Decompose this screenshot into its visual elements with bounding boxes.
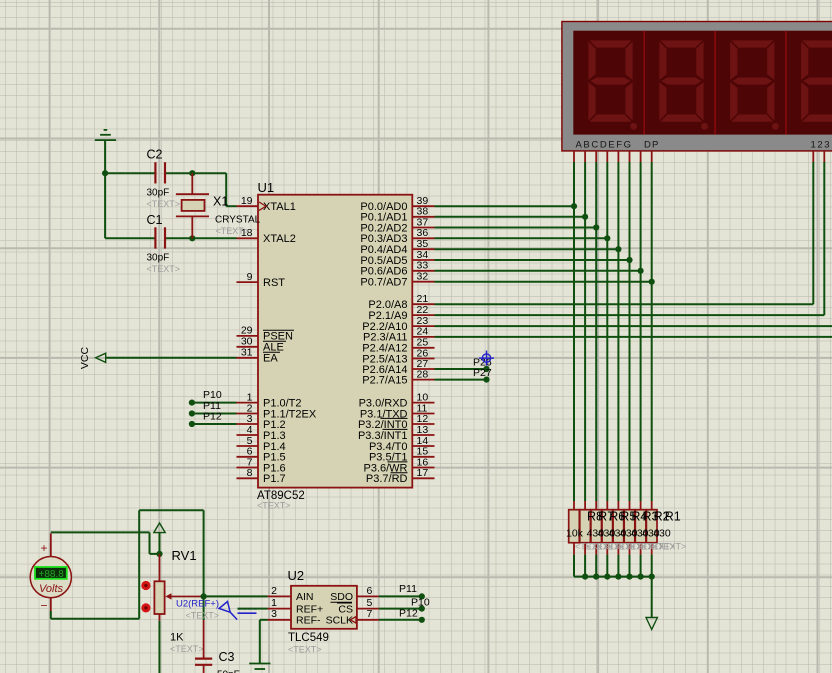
- voltage probe U2(REF+): [219, 602, 257, 620]
- wire U2 REF- to ground: [260, 620, 268, 664]
- power terminal VCC: [79, 346, 106, 369]
- net label P10: [203, 389, 222, 401]
- C2 label: [147, 148, 163, 162]
- wire RV1 bottom: [159, 621, 161, 673]
- svg-text:AIN: AIN: [296, 591, 314, 603]
- U1 pin 16 P3.6/WR: [363, 456, 434, 474]
- wire P0.4 to display segment E: [435, 162, 622, 501]
- wire RV1 wiper junction down to C3: [201, 593, 207, 620]
- U1 pin 28 P2.7/A15: [362, 368, 434, 386]
- ground (below U2): [249, 664, 270, 670]
- wire P0.1 to display segment B: [435, 162, 589, 501]
- U1 pin 15 P3.5/T1: [369, 446, 435, 464]
- svg-text:−: −: [41, 599, 48, 613]
- svg-text:<TEXT>: <TEXT>: [186, 610, 220, 620]
- svg-text:XTAL1: XTAL1: [263, 201, 296, 213]
- wire U2 to net P10: [379, 606, 425, 612]
- resistor labels R8..R1 (overlapping): [587, 510, 681, 524]
- svg-text:+88.8: +88.8: [39, 569, 65, 580]
- svg-text:50pF: 50pF: [217, 670, 240, 673]
- svg-text:C3: C3: [219, 650, 235, 664]
- svg-text:U1: U1: [258, 180, 275, 195]
- wire P2.3 to off-sheet digit pin 4: [435, 336, 832, 338]
- crystal X1: [176, 173, 209, 238]
- U1 pin 14 P3.4/T0: [369, 435, 435, 453]
- net label P12: [399, 608, 418, 620]
- resistor R7: [580, 501, 591, 555]
- svg-text:19: 19: [241, 195, 253, 207]
- U1 pin 19 XTAL1: [237, 195, 296, 213]
- U2 pin 5 CS: [337, 597, 379, 615]
- resistor values (overlapping): [566, 528, 671, 540]
- U1 pin 24 P2.3/A11: [363, 326, 434, 344]
- svg-text:U2(REF+): U2(REF+): [176, 599, 219, 610]
- resistor R5: [602, 501, 613, 555]
- U1 pin 2 P1.1/T2EX: [237, 402, 317, 420]
- svg-text:P11: P11: [399, 583, 417, 595]
- potentiometer RV1: [141, 554, 203, 621]
- svg-text:X1: X1: [213, 195, 228, 209]
- svg-text:REF-: REF-: [296, 615, 321, 627]
- svg-text:EA: EA: [263, 353, 278, 365]
- U1 pin 13 P3.3/INT1: [358, 424, 435, 442]
- svg-text:+: +: [41, 541, 48, 555]
- capacitor C3: [195, 620, 212, 673]
- U1 pin 36 P0.3/AD3: [360, 227, 434, 245]
- svg-text:P2.7/A15: P2.7/A15: [362, 374, 407, 386]
- svg-text:8: 8: [247, 467, 253, 479]
- svg-text:C1: C1: [147, 213, 163, 227]
- U2 property <TEXT>: [288, 644, 322, 654]
- display digit 1 (all segments off): [588, 40, 637, 129]
- U1 pin 1 P1.0/T2: [237, 391, 302, 409]
- svg-text:C2: C2: [147, 148, 163, 162]
- display digit 4 (all segments off): [801, 40, 832, 129]
- svg-text:<TEXT>: <TEXT>: [147, 264, 181, 274]
- svg-text:<TEXT>: <TEXT>: [288, 644, 322, 654]
- U1 pin 39 P0.0/AD0: [360, 195, 434, 213]
- wire resistor bus to ground: [574, 555, 655, 618]
- display segment pin labels ABCDEFG DP: [576, 139, 660, 150]
- svg-text:30pF: 30pF: [147, 187, 170, 198]
- wire P0.2 to display segment C: [435, 162, 600, 501]
- resistor R2: [635, 501, 646, 555]
- U2 pin 2 AIN: [268, 585, 314, 603]
- U1 pin 12 P3.2/INT0: [358, 413, 435, 431]
- U1 pin 10 P3.0/RXD: [359, 391, 435, 409]
- wire RV1 wiper to U2 AIN: [204, 595, 268, 597]
- svg-text:2: 2: [271, 585, 277, 597]
- svg-text:RST: RST: [263, 277, 285, 289]
- U2 pin 7 SCLK: [326, 608, 379, 626]
- svg-text:30pF: 30pF: [147, 252, 170, 263]
- svg-text:1K: 1K: [170, 631, 184, 643]
- svg-text:TLC549: TLC549: [288, 632, 329, 644]
- C3 label: [219, 650, 235, 664]
- U2 SCLK input mark: [350, 617, 356, 624]
- svg-text:32: 32: [417, 271, 429, 283]
- C1 value 30pF: [147, 252, 170, 263]
- svg-text:VCC: VCC: [79, 346, 91, 369]
- U1 pin 35 P0.4/AD4: [360, 238, 434, 256]
- U1 pin 18 XTAL2: [237, 227, 296, 245]
- U1 part number AT89C52: [257, 490, 305, 502]
- svg-text:XTAL2: XTAL2: [263, 233, 296, 245]
- svg-text:SDO: SDO: [330, 591, 353, 603]
- display digit pin labels 1234: [811, 139, 832, 150]
- display segment pins A-DP: [574, 151, 652, 162]
- wire ground to C2/C1 rail: [102, 140, 108, 238]
- svg-text:<TEXT>: <TEXT>: [216, 226, 250, 236]
- U1 pin 5 P1.4: [237, 435, 286, 453]
- svg-text:U2: U2: [288, 568, 305, 583]
- svg-text:RV1: RV1: [172, 548, 197, 563]
- svg-text:P3.7/RD: P3.7/RD: [366, 473, 408, 485]
- U1 pin 6 P1.5: [237, 446, 286, 464]
- wire P0.5 to display segment F: [435, 162, 633, 501]
- svg-text:R1: R1: [665, 510, 681, 524]
- X1 label: [213, 195, 228, 209]
- U1 property <TEXT>: [257, 501, 291, 511]
- U2 part number TLC549: [288, 632, 329, 644]
- display digit pins 1,2: [813, 151, 824, 162]
- svg-text:10k: 10k: [566, 528, 584, 540]
- svg-text:31: 31: [241, 347, 253, 359]
- C2 value 30pF: [147, 187, 170, 198]
- svg-text:REF+: REF+: [296, 603, 323, 615]
- voltmeter + mark: [41, 541, 48, 555]
- svg-text:1: 1: [271, 597, 277, 609]
- svg-text:430: 430: [653, 528, 671, 540]
- svg-text:SCLK: SCLK: [326, 615, 353, 627]
- resistor R1: [646, 501, 657, 555]
- U1 pin 11 P3.1/TXD: [360, 402, 435, 420]
- U1 pin 22 P2.1/A9: [368, 304, 434, 322]
- net label P10: [411, 597, 430, 609]
- X1 value CRYSTAL: [215, 214, 261, 225]
- X1 property <TEXT>: [216, 226, 250, 236]
- wire P2.0 to display digit pin 1: [435, 162, 814, 304]
- RV1 label: [172, 548, 197, 563]
- RV1 property <TEXT>: [170, 644, 204, 654]
- wire C1 row: [105, 235, 236, 241]
- U2 pin 1 REF+: [268, 597, 324, 615]
- svg-text:<TEXT>: <TEXT>: [147, 199, 181, 209]
- U1 pin 4 P1.3: [237, 424, 286, 442]
- resistor R3: [624, 501, 635, 555]
- U1 pin 34 P0.5/AD5: [360, 249, 434, 267]
- wire P0.7 to display segment H: [435, 162, 655, 501]
- probe property <TEXT>: [186, 610, 220, 620]
- U1 pin 8 P1.7: [237, 467, 286, 485]
- wire U2 to net P11: [379, 593, 425, 599]
- net label P12: [203, 411, 222, 423]
- svg-text:P12: P12: [203, 411, 222, 423]
- resistor R6: [591, 501, 602, 555]
- resistor R4: [613, 501, 624, 555]
- wire U2 to net P12: [379, 617, 425, 623]
- svg-text:17: 17: [417, 467, 429, 479]
- svg-text:DP: DP: [644, 139, 660, 150]
- resistor R8: [569, 501, 580, 555]
- net label P11: [203, 400, 221, 412]
- U1 pin 37 P0.2/AD2: [360, 216, 434, 234]
- display digit 3 (all segments off): [730, 40, 779, 129]
- wire P2.2 to off-sheet digit pin 3: [435, 325, 832, 327]
- origin marker: [479, 351, 494, 366]
- wire probe to U2 REF+: [238, 608, 268, 610]
- display digit 2 (all segments off): [659, 40, 708, 129]
- svg-text:7: 7: [367, 608, 373, 620]
- U1 pin 26 P2.5/A13: [362, 347, 434, 365]
- wire P0.0 to display segment A: [435, 162, 578, 501]
- net label P27: [473, 367, 492, 379]
- U1 pin 38 P0.1/AD1: [360, 206, 434, 224]
- U2 pin 3 REF-: [268, 608, 322, 626]
- U1 pin 30 ALE: [237, 336, 287, 354]
- U1 pin 25 P2.4/A12: [362, 337, 434, 355]
- ADC U2 TLC549 body: [291, 586, 357, 629]
- C1 label: [147, 213, 163, 227]
- svg-text:Volts: Volts: [39, 583, 64, 595]
- U2 pin 6 SDO: [330, 585, 379, 603]
- svg-text:123: 123: [811, 139, 832, 150]
- U1 pin 29 PSEN: [237, 325, 295, 343]
- svg-text:6: 6: [367, 585, 373, 597]
- svg-text:28: 28: [417, 368, 429, 380]
- voltmeter probe body: [30, 557, 71, 598]
- resistor properties <TEXT> (overlapping): [575, 542, 686, 552]
- U1 pin 9 RST: [237, 271, 286, 289]
- svg-text:9: 9: [247, 271, 253, 283]
- wire P2.6 net P26: [435, 366, 490, 372]
- svg-text:P27: P27: [473, 367, 492, 379]
- svg-text:3: 3: [271, 608, 277, 620]
- probe label U2(REF+): [176, 599, 219, 610]
- voltmeter pins: [50, 533, 52, 611]
- C3 value 50pF: [217, 670, 240, 673]
- U1 designator label: [258, 180, 275, 195]
- U1 pin 7 P1.6: [237, 456, 286, 474]
- svg-text:<TEXT>: <TEXT>: [653, 542, 687, 552]
- U1 pin 21 P2.0/A8: [368, 293, 434, 311]
- C1 property <TEXT>: [147, 264, 181, 274]
- U1 pin 32 P0.7/AD7: [360, 271, 434, 289]
- U1 pin 31 EA: [237, 347, 281, 365]
- voltmeter - mark: [41, 599, 48, 613]
- power arrow above RV1: [154, 523, 165, 554]
- U1 pin 33 P0.6/AD6: [360, 260, 434, 278]
- RV1 value 1K: [170, 631, 184, 643]
- wire P2.7 net P27: [435, 377, 490, 383]
- svg-text:5: 5: [367, 597, 373, 609]
- svg-text:ABCDEFG: ABCDEFG: [576, 139, 633, 150]
- C2 property <TEXT>: [147, 199, 181, 209]
- microcontroller U1 AT89C52 body: [258, 195, 412, 488]
- U1 pin 23 P2.2/A10: [362, 315, 434, 333]
- net label P11: [399, 583, 417, 595]
- wire P0.6 to display segment G: [435, 162, 644, 501]
- wire P2.1 to display digit pin 2: [435, 162, 825, 315]
- U1 pin 27 P2.6/A14: [362, 358, 434, 376]
- wire P0.3 to display segment D: [435, 162, 611, 501]
- ground arrow (below resistors): [646, 618, 657, 630]
- svg-text:CRYSTAL: CRYSTAL: [215, 214, 261, 225]
- net label P26: [473, 356, 492, 368]
- wire C2 row: [105, 170, 236, 206]
- wire P1.2 net P12: [189, 421, 237, 427]
- ground (top left): [95, 130, 116, 140]
- capacitor C2: [155, 162, 165, 183]
- svg-text:P12: P12: [399, 608, 418, 620]
- wire P1.1 net P11: [189, 410, 237, 416]
- display DS1 4-digit 7-segment frame: [562, 22, 832, 151]
- svg-text:P0.7/AD7: P0.7/AD7: [360, 277, 407, 289]
- wire P1.0 net P10: [189, 400, 237, 406]
- svg-text:P1.7: P1.7: [263, 473, 286, 485]
- U2 designator label: [288, 568, 305, 583]
- wire voltmeter + to RV1 top: [51, 532, 163, 557]
- U1 XTAL1 clock mark: [259, 202, 266, 210]
- svg-text:<TEXT>: <TEXT>: [170, 644, 204, 654]
- U1 pin 3 P1.2: [237, 413, 286, 431]
- wire voltmeter - rail: [51, 510, 204, 619]
- wire VCC to EA: [106, 357, 237, 359]
- svg-text:<TEXT>: <TEXT>: [257, 501, 291, 511]
- svg-text:CS: CS: [338, 603, 353, 615]
- capacitor C1: [155, 227, 165, 248]
- U1 pin 17 P3.7/RD: [366, 467, 435, 485]
